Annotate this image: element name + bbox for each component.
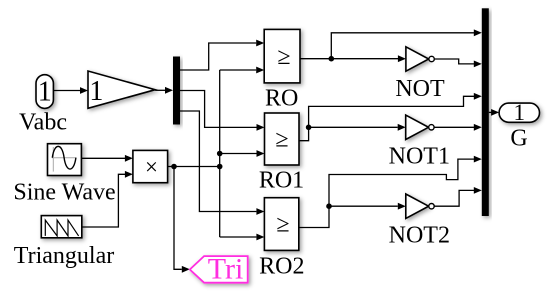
relational operator RO bbox=[264, 29, 300, 83]
demux bar bbox=[173, 57, 180, 125]
product block (x) bbox=[133, 150, 168, 182]
wire product node down to Tri tag bbox=[174, 167, 190, 273]
junction node RO out bbox=[329, 56, 335, 62]
wire mux to outport G bbox=[489, 109, 499, 116]
wire Vabc port to gain bbox=[53, 87, 88, 94]
wire RO2 out to NOT2 and mux in5 bbox=[299, 156, 482, 228]
svg-text:NOT1: NOT1 bbox=[389, 143, 450, 169]
wire demux out1 to RO in1 bbox=[180, 43, 256, 70]
wire NOT out to mux in2 bbox=[434, 59, 474, 64]
svg-text:G: G bbox=[510, 126, 527, 152]
junction node RO2 out bbox=[326, 203, 332, 209]
triangular source block bbox=[41, 216, 82, 238]
inverter NOT1 bbox=[406, 115, 434, 139]
svg-text:Tri: Tri bbox=[208, 252, 244, 285]
junction node RO1 out bbox=[306, 125, 312, 131]
wire sine to product in1 bbox=[81, 155, 132, 162]
wire carrier to RO1 in2 bbox=[220, 153, 257, 155]
goto tag Tri bbox=[190, 252, 248, 285]
svg-text:NOT: NOT bbox=[395, 76, 445, 102]
svg-text:≥: ≥ bbox=[277, 44, 290, 70]
wire carrier vertical distribution bbox=[219, 70, 221, 237]
inverter NOT2 bbox=[406, 194, 434, 218]
svg-text:NOT2: NOT2 bbox=[389, 222, 450, 248]
svg-text:Vabc: Vabc bbox=[19, 110, 67, 136]
wire carrier to RO in2 bbox=[220, 69, 257, 71]
junction node at product output bbox=[171, 164, 177, 170]
svg-text:Triangular: Triangular bbox=[14, 243, 114, 269]
inverter NOT bbox=[406, 47, 434, 71]
wire NOT2 out to mux in6 bbox=[434, 190, 474, 206]
svg-text:≥: ≥ bbox=[276, 211, 289, 237]
wire RO out to NOT and mux in1 bbox=[300, 29, 482, 62]
relational operator RO1 bbox=[265, 113, 300, 165]
wire RO1 out to NOT1 and mux in3 bbox=[299, 93, 482, 141]
wire demux out2 to RO1 in1 bbox=[180, 91, 257, 128]
svg-text:RO: RO bbox=[265, 86, 298, 112]
relational operator RO2 bbox=[264, 198, 298, 251]
wire NOT1 out to mux in4 bbox=[434, 126, 474, 128]
wire triangular to product in2 bbox=[82, 171, 133, 227]
junction node carrier to RO1 bbox=[217, 151, 223, 157]
svg-text:1: 1 bbox=[38, 77, 52, 108]
svg-text:RO1: RO1 bbox=[259, 168, 304, 194]
wire gain to demux bbox=[155, 87, 173, 94]
junction node carrier tee bbox=[217, 164, 223, 170]
svg-text:RO2: RO2 bbox=[259, 253, 304, 279]
svg-text:≥: ≥ bbox=[275, 126, 288, 152]
svg-text:1: 1 bbox=[514, 100, 526, 125]
svg-text:×: × bbox=[145, 155, 158, 180]
svg-text:1: 1 bbox=[89, 76, 103, 107]
sine wave source block bbox=[48, 144, 82, 176]
wire demux out3 to RO2 in1 bbox=[180, 111, 256, 212]
mux bar bbox=[482, 8, 489, 216]
outport block 1 (G) bbox=[499, 100, 539, 125]
inport block 1 (Vabc) bbox=[36, 75, 53, 109]
gain block K=1 bbox=[88, 71, 155, 108]
wire product out to carrier node bbox=[168, 166, 220, 168]
wire carrier to RO2 in2 bbox=[220, 236, 257, 238]
svg-text:Sine Wave: Sine Wave bbox=[13, 180, 115, 206]
